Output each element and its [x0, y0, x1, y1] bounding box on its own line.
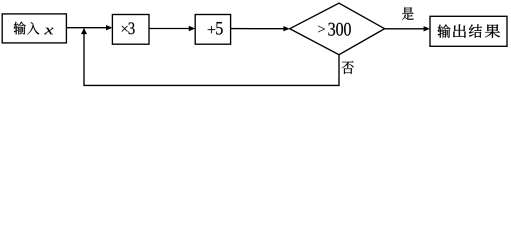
label 是 (yes branch)	[402, 7, 414, 20]
label 入 (input box)	[27, 22, 39, 34]
label 3 (times-3 box)	[128, 22, 134, 34]
label 5 (plus-5 box)	[216, 22, 223, 35]
label 3 (decision)	[328, 23, 335, 36]
arrowhead into box2	[106, 25, 112, 30]
label 出 (output box)	[453, 24, 466, 37]
arrowhead into box4	[424, 26, 430, 31]
wire box3 to diamond	[231, 28, 284, 30]
label x italic (input box)	[44, 28, 53, 35]
arrowhead into box3	[189, 26, 195, 31]
wire box1 to box2	[66, 27, 106, 29]
label 输 (input box)	[14, 22, 26, 35]
arrowhead into diamond	[283, 26, 289, 31]
wire feedback loop (no branch)	[84, 29, 339, 86]
process box +5	[195, 15, 230, 45]
label 果 (output box)	[485, 24, 500, 37]
label 否 (no branch)	[342, 61, 354, 74]
flowchart diagram	[0, 0, 511, 89]
label > (decision)	[318, 26, 325, 33]
label 0 (decision)	[336, 23, 343, 36]
label 0 second (decision)	[344, 23, 351, 36]
label 结 (output box)	[469, 24, 482, 37]
arrowhead up into wire box1-box2	[81, 28, 87, 34]
wire diamond to box4 (yes)	[385, 28, 424, 30]
process box 输出结果	[430, 16, 507, 46]
label × (times-3 box)	[122, 26, 128, 32]
wire box2 to box3	[149, 28, 189, 30]
process box 输入x	[2, 14, 66, 43]
decision diamond >300	[290, 3, 385, 55]
label 输 (output box)	[438, 24, 451, 37]
label + (plus-5 box)	[208, 26, 216, 33]
process box ×3	[112, 15, 149, 45]
